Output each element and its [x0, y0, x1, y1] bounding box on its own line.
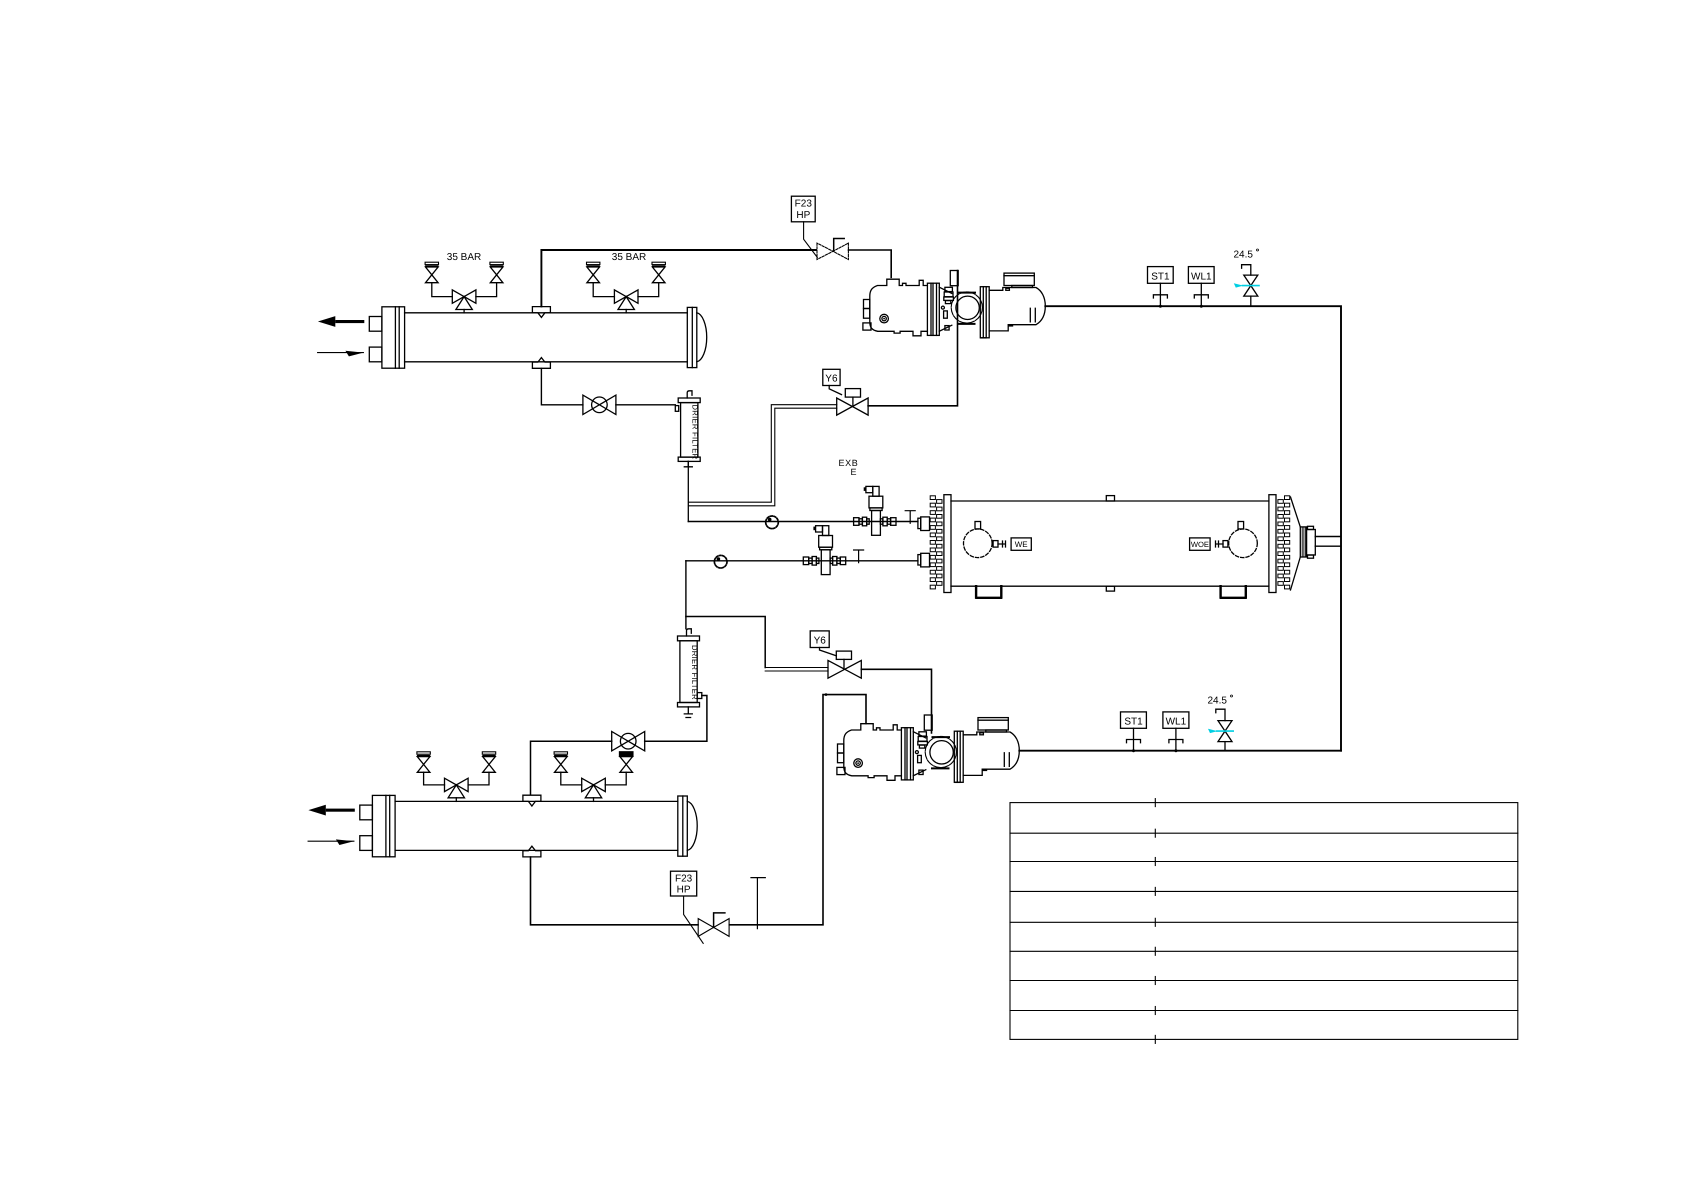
pipe: drier2 to valve to condenser2 top [531, 696, 707, 795]
condenser HE1 shell [318, 307, 707, 369]
svg-text:E: E [851, 467, 857, 477]
relief valve SV4a [554, 752, 582, 785]
svg-text:WE: WE [1015, 540, 1028, 549]
three-way valve TW1 [452, 290, 476, 313]
svg-text:DRIER FILTER: DRIER FILTER [690, 645, 699, 700]
svg-text:WL1: WL1 [1191, 271, 1212, 282]
three-way valve TW4 [582, 778, 606, 801]
svg-text:24.5: 24.5 [1234, 250, 1254, 261]
pipe: Y6-1 double line to drier1 [689, 405, 837, 506]
svg-text:WL1: WL1 [1166, 717, 1187, 728]
pipe: CP2 discharge line [1019, 750, 1341, 752]
pipe: Y6-2 double feed [765, 668, 828, 672]
sensor ST1 (bottom) [1121, 712, 1147, 752]
pipe: F23-2 valve to compressor CP2 [729, 695, 866, 925]
sight glass SG2 [714, 555, 727, 568]
pipe: evaporator outlet stubs [1315, 537, 1340, 547]
svg-text:HP: HP [677, 885, 691, 896]
drier filter DF2 [678, 629, 702, 718]
pipe: CP1 discharge to right main riser [1045, 306, 1341, 751]
evaporator right head [1291, 497, 1316, 590]
pipe: liquid line 2 to evaporator [686, 560, 918, 562]
svg-text:Y6: Y6 [814, 636, 827, 647]
compressor CP1 [863, 271, 1045, 338]
sensor WL1 (bottom) [1163, 712, 1189, 752]
svg-text:HP: HP [796, 210, 810, 221]
svg-text:F23: F23 [675, 873, 693, 884]
pipe: CP1 suction drop [868, 271, 957, 406]
pipe: branch to Y6-2 [686, 617, 765, 668]
svg-text:F23: F23 [795, 199, 813, 210]
sensor WE [964, 522, 1032, 558]
T-probe EXV1 [905, 511, 915, 524]
pipe: drier1 down to liquid line [687, 461, 689, 521]
pipe: liquid line 2 riser [685, 561, 687, 629]
T-probe on hot gas line [751, 878, 765, 929]
sensor ST1 (top) [1148, 267, 1174, 308]
evaporator saddle right [1221, 586, 1246, 598]
svg-text:DRIER FILTER: DRIER FILTER [691, 405, 700, 460]
three-way valve TW2 [614, 290, 638, 313]
valve Y6-1 [823, 369, 868, 415]
pipe: liquid line 1 to evaporator [688, 521, 918, 523]
T-probe EXV2 [854, 550, 864, 563]
evaporator saddle left [976, 586, 1001, 598]
shutoff valve V2 (condenser2 liquid) [612, 732, 645, 751]
three-way valve TW3 [445, 778, 469, 801]
evaporator top stub [1106, 496, 1114, 501]
compressor CP2 [837, 715, 1019, 782]
junction node [825, 693, 828, 696]
pipe: F23 valve to compressor CP1 [849, 250, 892, 277]
sight glass SG1 [766, 516, 779, 529]
relief valve SV4b [605, 752, 633, 785]
revision table [1010, 799, 1518, 1044]
evaporator left nozzle lower [918, 553, 930, 567]
svg-text:Y6: Y6 [825, 374, 838, 385]
svg-text:WOE: WOE [1191, 540, 1209, 549]
svg-text:35 BAR: 35 BAR [612, 252, 646, 263]
relief valve SV3b [468, 752, 496, 785]
valve Y6-2 [810, 631, 861, 678]
evaporator shell [930, 495, 1289, 593]
sensor WOE [1190, 522, 1258, 558]
relief valve SV2b [638, 262, 665, 296]
shutoff valve V1 (condenser1 outlet) [583, 395, 616, 414]
pipe: condenser1 bottom to valve and drier1 [541, 369, 675, 405]
expansion valve EXV2 [803, 526, 845, 575]
pipe: condenser1 top to F23 valve [541, 250, 816, 306]
evaporator bottom stub [1106, 586, 1114, 591]
valve 24.5 (bottom) [1208, 695, 1234, 751]
svg-text:35 BAR: 35 BAR [447, 252, 481, 263]
relief valve SV3a [417, 752, 445, 785]
svg-text:24.5: 24.5 [1208, 696, 1228, 707]
condenser HE2 shell [308, 795, 697, 857]
sensor WL1 (top) [1188, 267, 1214, 308]
pipe: Y6-2 to compressor CP2 [861, 669, 931, 733]
valve 24.5 (top) [1234, 249, 1260, 306]
evaporator left nozzle upper [918, 517, 930, 531]
svg-text:ST1: ST1 [1124, 717, 1143, 728]
valve F23 HP (bottom) [671, 871, 730, 943]
relief valve SV2a [587, 262, 615, 296]
relief valve SV1b [476, 262, 503, 296]
valve F23 HP (top) [791, 196, 848, 259]
pipe: condenser2 bottom to F23-2 valve [531, 857, 699, 925]
svg-text:ST1: ST1 [1151, 271, 1170, 282]
relief valve SV1a [425, 262, 452, 296]
drier filter DF1 [675, 391, 700, 467]
expansion valve EXV1 [854, 486, 896, 535]
